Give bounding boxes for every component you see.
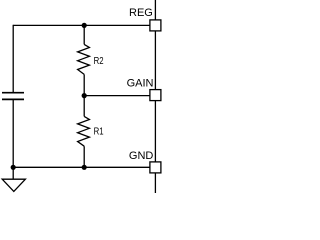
capacitor C1 top plate bbox=[2, 92, 24, 94]
terminal pin GND bbox=[150, 162, 161, 173]
terminal pin GAIN bbox=[150, 90, 161, 101]
node junction dot top (REG net / R2) bbox=[82, 23, 87, 28]
node junction dot bottom-mid (R1 to GND net) bbox=[82, 165, 87, 170]
wire mid rail: mid dot to R1 bbox=[83, 96, 85, 117]
wire mid rail: R1 to bottom wire bbox=[83, 146, 85, 167]
svg-text:R2: R2 bbox=[94, 55, 104, 66]
resistor R2 bbox=[78, 44, 90, 74]
capacitor C1 bottom plate bbox=[2, 98, 24, 100]
wire bottom horizontal (GND net) bbox=[13, 166, 150, 168]
svg-text:REG: REG bbox=[129, 7, 153, 19]
resistor R1 bbox=[78, 116, 90, 146]
terminal pin REG bbox=[150, 20, 161, 31]
wire mid rail: R2 to mid dot bbox=[83, 74, 85, 95]
wire top horizontal (REG net) bbox=[13, 24, 150, 26]
node junction dot bottom-left (capacitor to GND net) bbox=[11, 165, 16, 170]
node junction dot mid (GAIN net / R1-R2) bbox=[82, 93, 87, 98]
svg-text:R1: R1 bbox=[94, 125, 104, 136]
wire ground stub bbox=[12, 167, 14, 179]
ground symbol bbox=[2, 179, 25, 191]
wire mid rail: top dot to R2 bbox=[83, 25, 85, 44]
wire left rail upper (corner to capacitor top plate) bbox=[12, 25, 14, 92]
svg-text:GAIN: GAIN bbox=[127, 78, 154, 90]
wire mid horizontal (GAIN net) bbox=[84, 95, 150, 97]
wire left rail lower (capacitor to ground node) bbox=[12, 100, 14, 167]
wire right rail bbox=[154, 0, 156, 193]
svg-text:GND: GND bbox=[129, 150, 154, 162]
